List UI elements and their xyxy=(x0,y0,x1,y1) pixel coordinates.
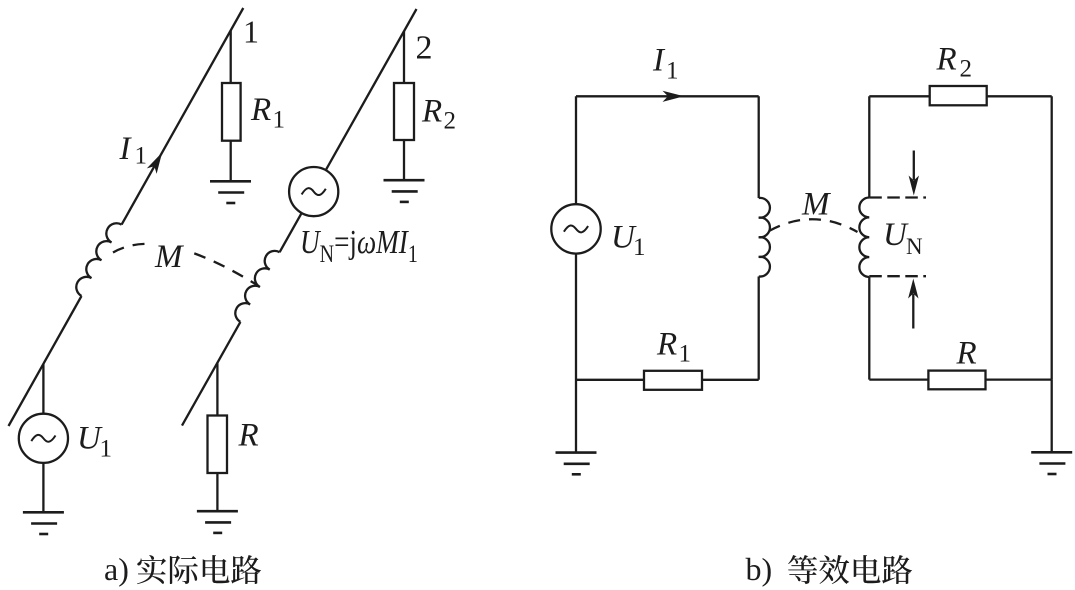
ground under U1 (circuit a) xyxy=(23,512,64,534)
left loop left vertical xyxy=(575,96,577,204)
primary coil (circuit b) xyxy=(759,198,770,277)
ground right loop xyxy=(1031,452,1072,474)
mutual inductance M dashed arc (circuit a) xyxy=(113,244,257,285)
wire line 2 upper segment (terminal 2 to UN source) xyxy=(326,9,417,170)
mutual inductance M dashed arc (circuit b) xyxy=(769,219,858,232)
right loop right vertical xyxy=(1051,96,1053,379)
left loop left vertical lower / to ground xyxy=(575,254,577,453)
wire U1 to ground xyxy=(42,463,44,512)
UN bottom dashed line xyxy=(869,275,926,277)
sine symbol in UN xyxy=(302,188,326,195)
I1 arrow head (circuit a) xyxy=(147,152,162,174)
wire R2 to ground xyxy=(403,140,405,180)
UN up arrow line xyxy=(912,294,914,329)
wire line 2 middle segment (UN to coil) xyxy=(280,213,302,252)
inductor L1 coil on line 1 xyxy=(76,223,121,296)
UN top dashed line xyxy=(869,196,926,198)
resistor R2 (circuit b) xyxy=(930,86,987,105)
svg-text:2: 2 xyxy=(444,108,457,135)
source U1 circle (circuit a) xyxy=(19,414,68,463)
resistor R1 (circuit b) xyxy=(644,371,702,390)
UN up arrow head xyxy=(908,279,918,299)
svg-text:I: I xyxy=(652,43,666,79)
wire R to ground xyxy=(216,473,218,511)
right loop top wire xyxy=(869,95,929,97)
left loop right vertical upper xyxy=(758,96,760,198)
caption b chinese: deng xiao dian lu xyxy=(788,555,912,584)
resistor R1 (circuit a) xyxy=(222,83,241,141)
resistor R2 (circuit a) xyxy=(394,83,414,140)
svg-text:1: 1 xyxy=(679,341,692,368)
svg-text:M: M xyxy=(801,187,831,223)
right vertical to ground xyxy=(1051,380,1053,453)
I1 arrow head (circuit b) xyxy=(663,91,685,102)
secondary coil (circuit b) xyxy=(859,198,869,278)
wire R1 to ground xyxy=(230,141,232,182)
resistor R (circuit a) xyxy=(208,416,228,474)
wire stub from line 2 to R xyxy=(216,363,218,416)
source U1 circle (circuit b) xyxy=(551,204,600,253)
svg-text:R: R xyxy=(238,418,259,454)
ground under R (circuit a) xyxy=(197,511,238,533)
wire line 1 lower segment (coil to lower end) xyxy=(9,296,82,426)
ground under R2 xyxy=(384,180,425,202)
top wire right of R2 xyxy=(987,95,1052,97)
svg-text:b): b) xyxy=(746,551,773,587)
svg-text:UN=jωMI1: UN=jωMI1 xyxy=(300,223,418,268)
resistor R (circuit b) xyxy=(928,371,985,390)
svg-text:1: 1 xyxy=(273,106,286,133)
sine symbol in U1 (b) xyxy=(564,225,588,232)
right loop left vertical lower xyxy=(868,277,870,380)
svg-text:R: R xyxy=(936,41,957,77)
svg-text:R: R xyxy=(250,92,271,128)
svg-text:R: R xyxy=(421,93,442,129)
wire line 1 upper segment (terminal 1 to coil) xyxy=(122,8,244,225)
source UN circle on line 2 xyxy=(289,167,338,216)
left loop top wire with I1 (circuit b) xyxy=(576,95,759,97)
left loop right vertical lower xyxy=(758,277,760,380)
left loop bottom wire xyxy=(576,379,644,381)
label M (circuit a) xyxy=(148,238,192,275)
wire line 2 lower segment (coil to lower end) xyxy=(182,322,240,426)
svg-text:1: 1 xyxy=(666,58,679,85)
svg-text:M: M xyxy=(154,239,184,275)
right loop bottom wire xyxy=(869,378,928,380)
label UN = jwMI1 (circuit a) xyxy=(300,223,418,268)
svg-text:1: 1 xyxy=(243,14,259,50)
UN down arrow head xyxy=(909,176,919,196)
bottom wire right of R xyxy=(986,378,1052,380)
ground under R1 xyxy=(210,181,251,203)
svg-text:a): a) xyxy=(104,551,129,587)
svg-text:2: 2 xyxy=(960,56,973,83)
right loop left vertical upper xyxy=(868,96,870,197)
wire stub from line 1 to U1 source xyxy=(42,364,44,414)
svg-text:2: 2 xyxy=(416,30,433,67)
svg-text:R: R xyxy=(656,326,677,362)
ground under U1 (circuit b) xyxy=(556,453,597,475)
svg-text:N: N xyxy=(906,234,923,259)
svg-text:R: R xyxy=(956,336,977,372)
caption a chinese: shi ji dian lu xyxy=(137,555,261,584)
bottom wire right of R1 xyxy=(702,379,759,381)
svg-text:1: 1 xyxy=(135,143,148,170)
svg-text:1: 1 xyxy=(633,234,646,261)
UN down arrow line xyxy=(913,151,915,181)
svg-text:1: 1 xyxy=(100,436,113,463)
sine symbol in U1 xyxy=(31,435,55,442)
svg-text:I: I xyxy=(119,131,133,167)
wire stub from line 1 to R1 xyxy=(230,30,232,83)
wire stub from line 2 to R2 xyxy=(403,31,405,83)
inductor L2 coil on line 2 xyxy=(235,251,279,322)
